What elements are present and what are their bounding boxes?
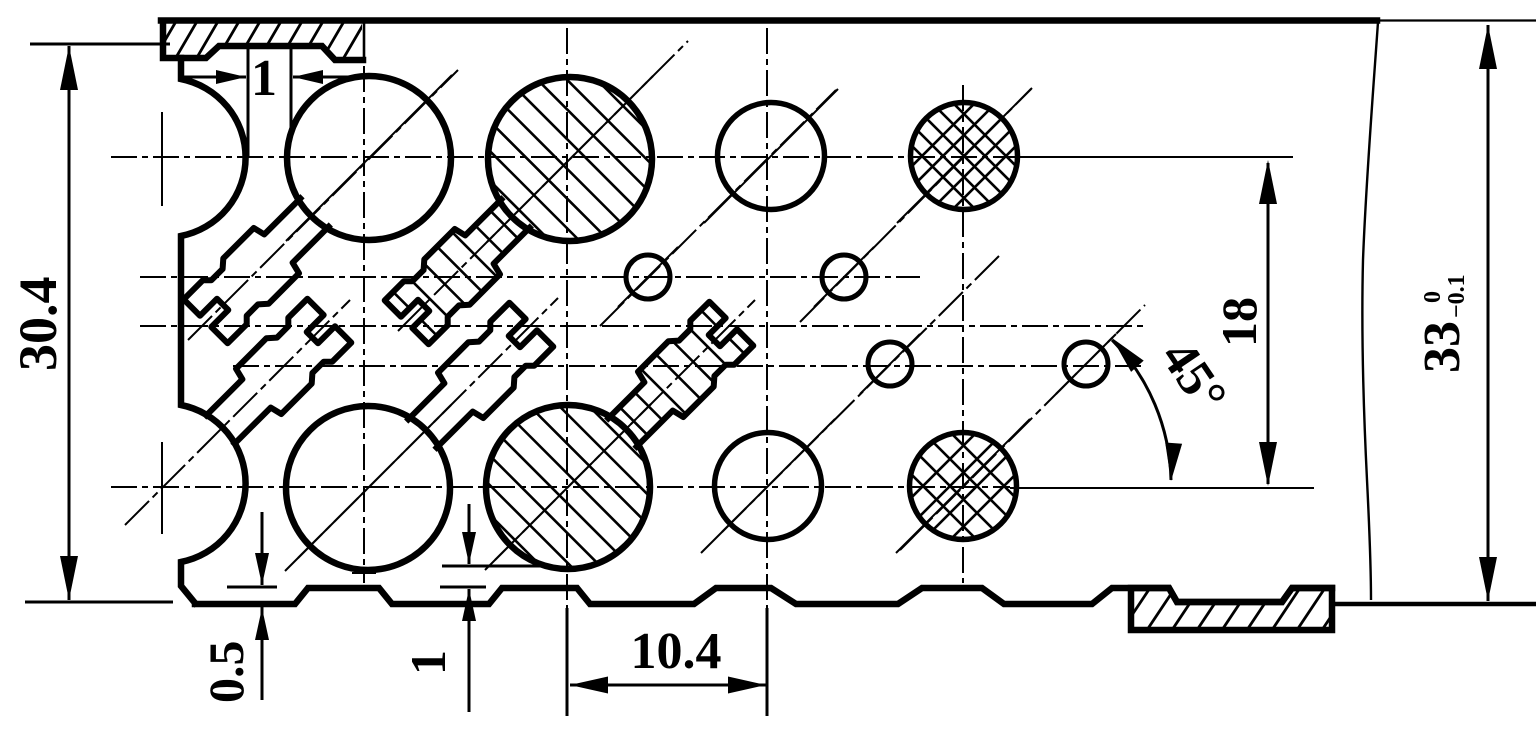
svg-text:33: 33 [1414,321,1471,373]
svg-text:30.4: 30.4 [8,277,68,372]
svg-text:−0.1: −0.1 [1444,274,1470,318]
svg-text:0.5: 0.5 [198,641,254,704]
svg-text:18: 18 [1211,297,1267,347]
svg-text:10.4: 10.4 [631,623,722,680]
svg-text:1: 1 [400,650,456,675]
svg-text:1: 1 [251,50,277,107]
svg-text:0: 0 [1420,291,1446,303]
